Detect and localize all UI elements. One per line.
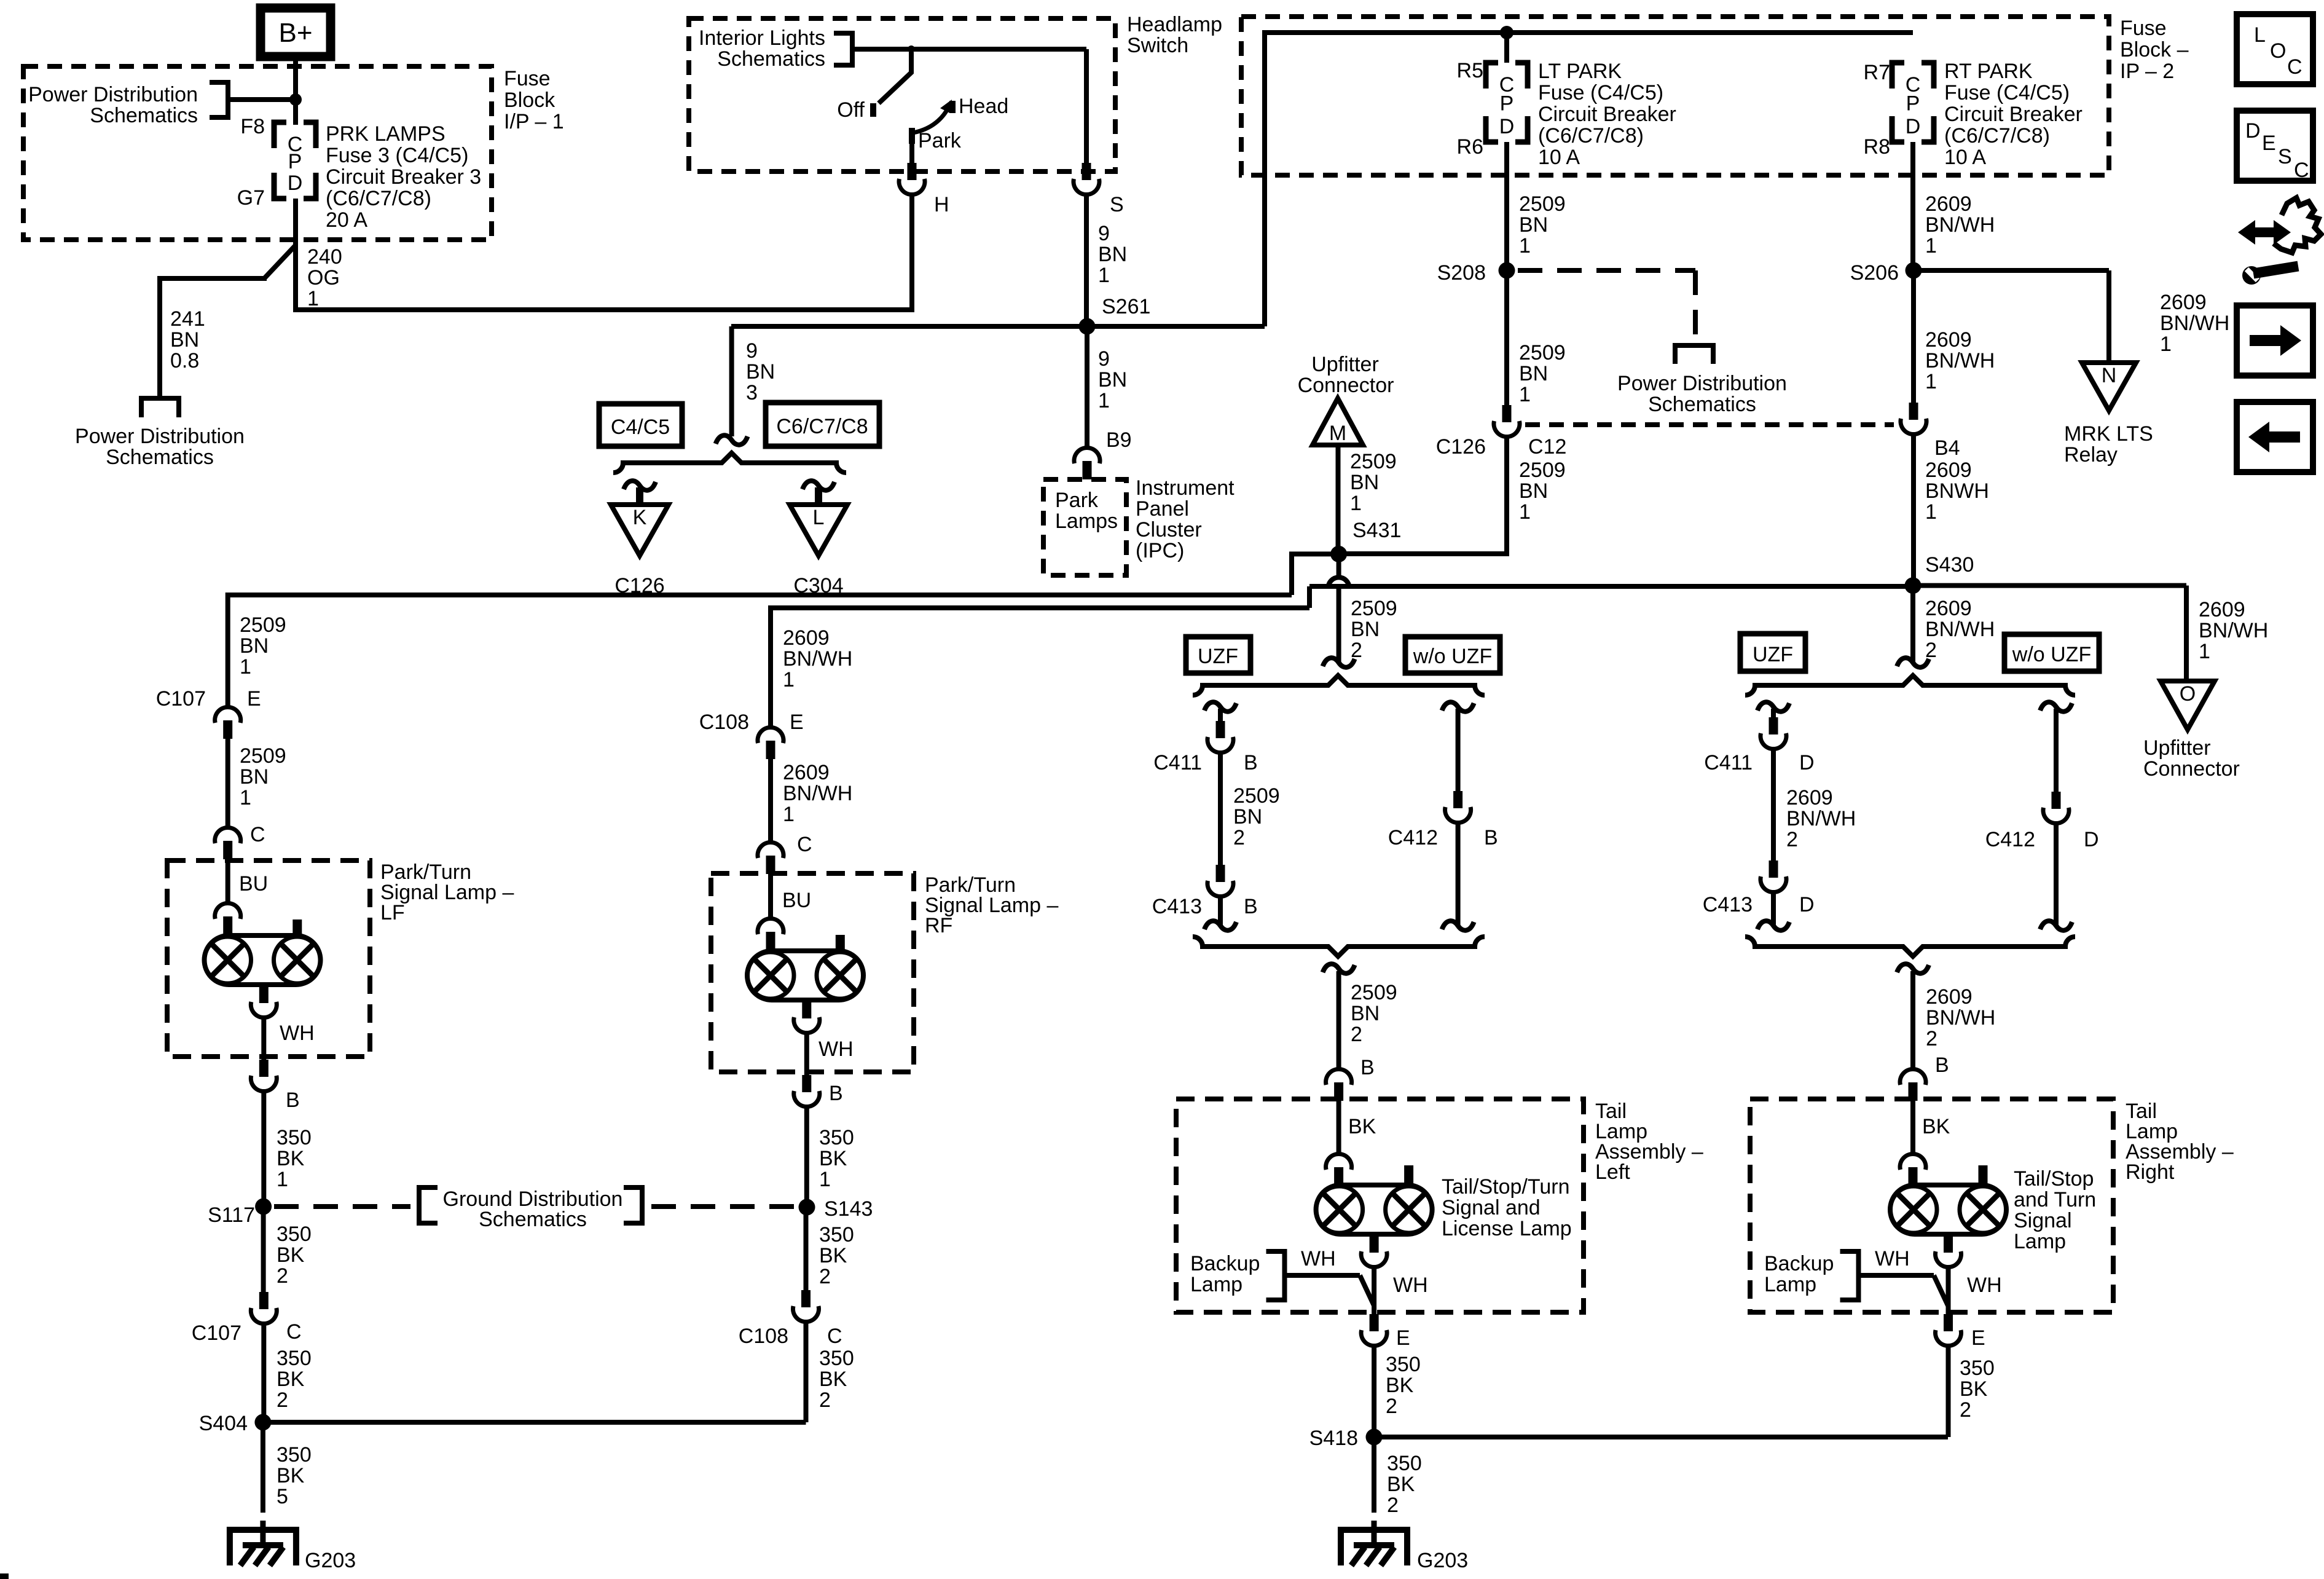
wire tail left to E bbox=[1372, 1267, 1376, 1314]
svg-text:0.8: 0.8 bbox=[170, 349, 199, 372]
svg-text:C: C bbox=[797, 833, 812, 856]
svg-text:BK: BK bbox=[1922, 1115, 1950, 1138]
svg-text:350: 350 bbox=[277, 1443, 312, 1467]
connector WH out (tail left) bbox=[1361, 1251, 1387, 1267]
svg-text:1: 1 bbox=[240, 655, 251, 679]
dashed pass-through line bbox=[1525, 422, 1894, 427]
svg-text:R5: R5 bbox=[1457, 59, 1483, 82]
svg-text:R8: R8 bbox=[1864, 135, 1890, 159]
lamp LF park/turn bulb bbox=[205, 935, 321, 985]
svg-text:2509: 2509 bbox=[1351, 981, 1397, 1004]
wire C413 down (left) bbox=[1218, 897, 1223, 926]
svg-text:BN/WH: BN/WH bbox=[783, 782, 852, 805]
connector B4 bbox=[1909, 403, 1918, 420]
connector E (tail right) bbox=[1944, 1314, 1953, 1331]
connector C411 (right) bbox=[1769, 717, 1778, 734]
svg-text:(IPC): (IPC) bbox=[1136, 539, 1184, 562]
junction above fuse F8 bbox=[289, 93, 302, 106]
wire branch w/o UZF upper (right) bbox=[2054, 709, 2059, 792]
park/turn signal lamp LF dashed box bbox=[167, 860, 370, 1057]
connector BU (RF) bbox=[758, 918, 783, 934]
svg-text:1: 1 bbox=[1925, 234, 1937, 258]
svg-text:BN: BN bbox=[1519, 479, 1548, 503]
wire C108 to S404 corner bbox=[804, 1322, 809, 1422]
svg-text:BN: BN bbox=[746, 360, 775, 384]
svg-text:C: C bbox=[286, 1320, 302, 1344]
connector lamp input left bbox=[1326, 1154, 1352, 1170]
branch UZF right top break bbox=[1757, 702, 1789, 711]
connector S terminal bbox=[1082, 163, 1091, 180]
svg-text:BN: BN bbox=[1098, 368, 1127, 392]
icon LOC box bbox=[2237, 14, 2313, 84]
connector B9 bbox=[1074, 447, 1100, 463]
svg-text:Fuse: Fuse bbox=[504, 67, 551, 90]
svg-text:C6/C7/C8: C6/C7/C8 bbox=[776, 415, 868, 438]
splice S206 bbox=[1906, 262, 1922, 279]
fuse block IP-2 dashed box bbox=[1241, 17, 2109, 175]
svg-text:C126: C126 bbox=[1436, 435, 1486, 459]
svg-text:1: 1 bbox=[1519, 234, 1531, 258]
svg-text:L: L bbox=[2254, 23, 2266, 47]
svg-text:Power Distribution: Power Distribution bbox=[75, 425, 245, 448]
corner artifact mark bbox=[0, 1573, 9, 1579]
svg-text:Signal: Signal bbox=[2014, 1209, 2072, 1232]
icon wrench bbox=[2242, 266, 2261, 285]
svg-text:S: S bbox=[1110, 193, 1124, 216]
svg-text:BN: BN bbox=[1519, 362, 1548, 385]
wire C412 down (right) bbox=[2054, 824, 2059, 926]
svg-text:Fuse 3 (C4/C5): Fuse 3 (C4/C5) bbox=[326, 144, 468, 167]
svg-text:WH: WH bbox=[1875, 1247, 1910, 1270]
svg-text:1: 1 bbox=[1925, 370, 1937, 393]
wire to tail lamp right bbox=[1910, 971, 1915, 1068]
svg-text:350: 350 bbox=[277, 1223, 312, 1246]
svg-text:Relay: Relay bbox=[2064, 443, 2118, 467]
svg-text:20 A: 20 A bbox=[326, 208, 367, 232]
svg-text:I/P – 1: I/P – 1 bbox=[504, 110, 564, 133]
svg-text:B: B bbox=[1484, 826, 1498, 849]
svg-text:350: 350 bbox=[819, 1347, 854, 1370]
switch wand to Off bbox=[879, 52, 911, 103]
svg-text:BN: BN bbox=[1098, 243, 1127, 266]
wire B to S143 bbox=[804, 1107, 809, 1207]
wire BU (LF) bbox=[226, 859, 230, 902]
lamp LF right stub bbox=[292, 919, 302, 937]
svg-text:BN: BN bbox=[240, 765, 269, 789]
bracket ground distribution right bbox=[624, 1187, 642, 1223]
backup lamp wire (left) bbox=[1285, 1273, 1360, 1278]
svg-text:9: 9 bbox=[1098, 347, 1110, 371]
svg-text:Lamp: Lamp bbox=[2014, 1230, 2066, 1253]
svg-text:D: D bbox=[1799, 751, 1815, 774]
svg-text:(C6/C7/C8): (C6/C7/C8) bbox=[1944, 124, 2050, 148]
svg-text:B: B bbox=[1244, 751, 1258, 774]
svg-text:BNWH: BNWH bbox=[1925, 479, 1989, 503]
svg-text:2: 2 bbox=[1786, 828, 1798, 851]
svg-text:2609: 2609 bbox=[1926, 985, 1973, 1009]
wire B to S117 bbox=[261, 1092, 266, 1207]
wire S143 to C108 C bbox=[804, 1207, 809, 1290]
splice S404 bbox=[254, 1414, 271, 1431]
svg-text:D: D bbox=[2245, 119, 2261, 143]
svg-text:Head: Head bbox=[959, 95, 1008, 118]
svg-text:UZF: UZF bbox=[1198, 645, 1238, 668]
svg-text:N: N bbox=[2102, 364, 2117, 387]
wire C108 riser bbox=[768, 605, 773, 726]
svg-text:1: 1 bbox=[1098, 389, 1110, 412]
svg-text:Upfitter: Upfitter bbox=[1311, 353, 1379, 376]
svg-text:B: B bbox=[1935, 1053, 1949, 1077]
svg-text:and Turn: and Turn bbox=[2014, 1188, 2096, 1211]
svg-text:2: 2 bbox=[277, 1264, 288, 1288]
svg-text:S430: S430 bbox=[1925, 553, 1974, 577]
svg-text:G203: G203 bbox=[1417, 1549, 1468, 1572]
svg-text:BN: BN bbox=[240, 634, 269, 658]
svg-text:C: C bbox=[2287, 55, 2302, 79]
splice S430 bbox=[1905, 577, 1922, 594]
splice S418 bbox=[1366, 1429, 1383, 1446]
svg-text:BN: BN bbox=[1351, 1002, 1380, 1025]
svg-text:P: P bbox=[1500, 92, 1514, 116]
brace lower (right group) bbox=[1745, 937, 2075, 956]
backup lamp bracket (right) bbox=[1840, 1251, 1859, 1300]
svg-text:BK: BK bbox=[1960, 1377, 1988, 1401]
break below lower brace (right) bbox=[1897, 964, 1929, 973]
backup lamp wire (right) bbox=[1859, 1273, 1934, 1278]
svg-text:B9: B9 bbox=[1106, 428, 1132, 452]
svg-text:9: 9 bbox=[1098, 222, 1110, 245]
wire IP-2 fuse feed horizontal bbox=[1262, 30, 1913, 35]
wire BK right bbox=[1910, 1100, 1915, 1152]
wire branch UZF left upper bbox=[1218, 709, 1223, 721]
svg-text:C413: C413 bbox=[1152, 895, 1202, 918]
wire C413 down (right) bbox=[1771, 892, 1776, 926]
svg-text:BK: BK bbox=[277, 1147, 305, 1170]
svg-text:1: 1 bbox=[1925, 500, 1937, 524]
icon location double arrow bbox=[2238, 220, 2291, 245]
wire 9 BN 3 horizontal bbox=[731, 324, 1089, 329]
wire 9 BN 3 vertical bbox=[729, 326, 734, 436]
svg-text:Fuse: Fuse bbox=[2120, 17, 2167, 40]
splice S431 bbox=[1330, 546, 1347, 562]
bracket ground distribution left bbox=[419, 1187, 438, 1223]
tail/stop/turn lamp left bbox=[1316, 1185, 1432, 1234]
svg-text:1: 1 bbox=[307, 287, 319, 310]
icon DESC box bbox=[2237, 111, 2313, 181]
svg-text:BK: BK bbox=[819, 1147, 847, 1170]
svg-text:S261: S261 bbox=[1102, 295, 1150, 318]
svg-text:2509: 2509 bbox=[1519, 459, 1566, 482]
fuse F8 PRK LAMPS symbol bbox=[274, 122, 286, 148]
svg-text:2: 2 bbox=[1926, 1027, 1937, 1050]
svg-text:Instrument: Instrument bbox=[1136, 476, 1235, 500]
connector BU (LF) bbox=[215, 903, 241, 919]
ground G203 (right) bbox=[1372, 1521, 1377, 1545]
svg-text:Park: Park bbox=[918, 129, 962, 152]
svg-text:Lamp: Lamp bbox=[1190, 1273, 1242, 1296]
svg-text:240: 240 bbox=[307, 245, 342, 269]
svg-text:350: 350 bbox=[1960, 1357, 1995, 1380]
svg-text:O: O bbox=[2270, 39, 2286, 63]
svg-text:R7: R7 bbox=[1864, 61, 1890, 84]
svg-text:L: L bbox=[813, 506, 825, 529]
wire S261 down to B9 bbox=[1085, 326, 1089, 446]
wire fuse F8 output bbox=[293, 199, 298, 310]
svg-text:2: 2 bbox=[1386, 1395, 1397, 1418]
svg-text:1: 1 bbox=[240, 786, 251, 809]
wire WH to B (LF) bbox=[261, 1017, 266, 1060]
wire S206 to B4 bbox=[1911, 270, 1916, 403]
connector C412 (left) bbox=[1453, 791, 1462, 808]
box C6/C7/C8 bbox=[766, 403, 879, 446]
svg-text:C412: C412 bbox=[1388, 826, 1438, 849]
wire tail right to E bbox=[1946, 1267, 1951, 1314]
wire E to S418 bbox=[1372, 1346, 1376, 1437]
tail lamp assembly right dashed box bbox=[1750, 1099, 2113, 1312]
svg-text:1: 1 bbox=[1350, 492, 1362, 515]
svg-text:B+: B+ bbox=[278, 18, 312, 48]
wire S leg down bbox=[1084, 49, 1089, 163]
svg-text:BN: BN bbox=[170, 328, 199, 352]
wire C107 E to C bbox=[226, 738, 230, 826]
brace lower (left group) bbox=[1193, 937, 1485, 956]
switch pivot node bbox=[908, 45, 915, 53]
svg-text:WH: WH bbox=[280, 1022, 315, 1045]
park/turn signal lamp RF dashed box bbox=[711, 873, 914, 1072]
park contact bbox=[909, 128, 915, 144]
svg-text:Right: Right bbox=[2126, 1160, 2175, 1184]
svg-text:Park: Park bbox=[1055, 489, 1099, 512]
svg-text:BN/WH: BN/WH bbox=[1926, 1006, 1995, 1030]
svg-text:2: 2 bbox=[1351, 1023, 1362, 1046]
tail lamp right right stub bbox=[1979, 1165, 1988, 1185]
lamp RF right stub bbox=[836, 935, 845, 952]
svg-text:2609: 2609 bbox=[1925, 597, 1972, 620]
icon back arrow box bbox=[2237, 402, 2313, 472]
svg-text:350: 350 bbox=[1386, 1353, 1421, 1376]
connector WH out (tail right) bbox=[1936, 1251, 1961, 1267]
svg-text:Backup: Backup bbox=[1190, 1252, 1260, 1275]
svg-text:2609: 2609 bbox=[2160, 291, 2207, 314]
svg-text:10 A: 10 A bbox=[1538, 146, 1580, 169]
svg-text:Switch: Switch bbox=[1127, 34, 1188, 57]
backup lamp bracket (left) bbox=[1266, 1251, 1285, 1300]
wire S431 down with hop bbox=[1337, 554, 1341, 578]
bracket power distribution (S208) bbox=[1675, 345, 1713, 364]
svg-text:Schematics: Schematics bbox=[717, 47, 825, 71]
svg-text:C12: C12 bbox=[1528, 435, 1566, 459]
fuse RT PARK symbol bbox=[1892, 63, 1904, 89]
fuse block I/P-1 dashed box bbox=[23, 66, 492, 240]
svg-text:D: D bbox=[1799, 893, 1815, 916]
svg-text:MRK LTS: MRK LTS bbox=[2064, 422, 2153, 446]
svg-text:BK: BK bbox=[277, 1243, 305, 1267]
off-page connector L bbox=[790, 505, 847, 556]
branch w/o UZF right bottom break bbox=[2040, 921, 2072, 930]
svg-text:S206: S206 bbox=[1850, 261, 1899, 285]
svg-text:B: B bbox=[829, 1082, 843, 1105]
svg-text:9: 9 bbox=[746, 339, 758, 363]
svg-text:UZF: UZF bbox=[1753, 643, 1793, 666]
instrument panel cluster dashed box bbox=[1043, 479, 1126, 575]
wire RT PARK to S206 bbox=[1910, 142, 1915, 270]
wire S to S261 bbox=[1084, 195, 1089, 326]
off-page connector N bbox=[2082, 363, 2136, 411]
branch w/o UZF left top break bbox=[1442, 702, 1474, 711]
svg-text:2509: 2509 bbox=[1233, 784, 1280, 808]
wire S208 to C126/C12 bbox=[1504, 270, 1509, 405]
off-page connector O bbox=[2161, 681, 2215, 730]
wire S418 to right tail bbox=[1374, 1435, 1948, 1439]
svg-text:OG: OG bbox=[307, 266, 340, 289]
wire C107 riser bbox=[226, 593, 230, 706]
brace feed split bbox=[613, 453, 846, 473]
svg-text:Power Distribution: Power Distribution bbox=[28, 83, 198, 106]
svg-text:BN/WH: BN/WH bbox=[783, 647, 852, 671]
head select arc with arrow bbox=[913, 107, 949, 133]
svg-text:C412: C412 bbox=[1985, 828, 2035, 851]
svg-text:License Lamp: License Lamp bbox=[1442, 1217, 1572, 1240]
bracket power distribution (bottom left) bbox=[141, 398, 179, 417]
svg-text:Lamps: Lamps bbox=[1055, 510, 1118, 533]
svg-text:Off: Off bbox=[837, 98, 865, 122]
svg-text:D: D bbox=[2084, 828, 2099, 851]
connector C126/C12 bbox=[1502, 405, 1512, 422]
svg-text:Tail/Stop: Tail/Stop bbox=[2014, 1167, 2094, 1191]
svg-text:BN/WH: BN/WH bbox=[1925, 349, 1995, 372]
svg-text:WH: WH bbox=[1301, 1247, 1336, 1270]
bracket interior lights bbox=[834, 33, 852, 65]
box C4/C5 bbox=[599, 404, 682, 446]
break to brace (9 BN 3) bbox=[716, 435, 748, 444]
svg-text:2509: 2509 bbox=[1350, 450, 1397, 473]
wire to tail lamp left bbox=[1337, 971, 1341, 1068]
connector C108 C bbox=[801, 1290, 811, 1307]
wire S430 down bbox=[1910, 586, 1915, 663]
svg-text:1: 1 bbox=[2160, 333, 2172, 356]
svg-text:B4: B4 bbox=[1934, 436, 1960, 460]
branch w/o UZF left bottom break bbox=[1442, 921, 1474, 930]
svg-text:Lamp: Lamp bbox=[1764, 1273, 1816, 1296]
connector B (RF) bbox=[802, 1075, 811, 1092]
branch w/o UZF right top break bbox=[2040, 702, 2072, 711]
svg-text:WH: WH bbox=[1967, 1274, 2002, 1297]
wire bracket to switch node bbox=[852, 47, 911, 52]
wire BU (RF) bbox=[768, 873, 773, 917]
svg-text:1: 1 bbox=[783, 668, 795, 691]
wire E down (right) bbox=[1946, 1346, 1951, 1437]
dashed link S117 to ground distribution bbox=[274, 1204, 410, 1209]
svg-text:Upfitter: Upfitter bbox=[2143, 736, 2211, 760]
tail lamp assembly left dashed box bbox=[1176, 1099, 1584, 1312]
svg-text:241: 241 bbox=[170, 307, 205, 331]
wire B+ to fuse F8 bbox=[293, 57, 298, 125]
svg-text:B: B bbox=[1360, 1056, 1375, 1079]
svg-text:S: S bbox=[2278, 145, 2292, 168]
svg-text:BN/WH: BN/WH bbox=[2199, 619, 2268, 642]
svg-text:3: 3 bbox=[746, 381, 758, 404]
connector lamp input right bbox=[1900, 1154, 1926, 1170]
svg-text:(C6/C7/C8): (C6/C7/C8) bbox=[326, 187, 431, 210]
break above left brace bbox=[1323, 658, 1355, 667]
svg-text:S117: S117 bbox=[208, 1203, 255, 1227]
svg-text:F8: F8 bbox=[240, 115, 265, 138]
svg-text:BN: BN bbox=[1351, 618, 1380, 641]
svg-text:1: 1 bbox=[277, 1168, 288, 1191]
svg-text:350: 350 bbox=[819, 1126, 854, 1149]
svg-text:2609: 2609 bbox=[1786, 786, 1833, 809]
wire 241 BN vertical bbox=[157, 276, 162, 398]
svg-text:Schematics: Schematics bbox=[1648, 393, 1756, 416]
svg-text:BK: BK bbox=[1387, 1473, 1415, 1496]
box UZF (left) bbox=[1186, 637, 1250, 673]
svg-text:Left: Left bbox=[1595, 1160, 1630, 1184]
svg-text:G7: G7 bbox=[237, 186, 265, 210]
svg-text:2: 2 bbox=[819, 1388, 831, 1412]
svg-text:E: E bbox=[2262, 132, 2276, 155]
connector B (LF) bbox=[259, 1060, 269, 1077]
connector B at tail right bbox=[1900, 1069, 1926, 1085]
off-page connector M bbox=[1313, 398, 1363, 445]
off contact tick bbox=[870, 103, 876, 117]
svg-text:P: P bbox=[288, 150, 302, 173]
splice S261 bbox=[1079, 318, 1096, 335]
svg-text:350: 350 bbox=[1387, 1452, 1422, 1475]
connector C108 E bbox=[758, 727, 783, 743]
off-page connector K bbox=[611, 505, 669, 556]
box w/o UZF (left) bbox=[1405, 637, 1500, 673]
svg-text:Tail/Stop/Turn: Tail/Stop/Turn bbox=[1442, 1175, 1570, 1199]
wire S404 to C108 branch bbox=[263, 1420, 806, 1425]
brace upper (right group) bbox=[1745, 675, 2075, 695]
svg-text:C411: C411 bbox=[1704, 751, 1753, 774]
svg-text:R6: R6 bbox=[1457, 135, 1483, 159]
splice S208 bbox=[1499, 262, 1515, 279]
wire C107 to S404 bbox=[261, 1324, 266, 1422]
svg-text:C413: C413 bbox=[1703, 893, 1753, 916]
svg-text:BK: BK bbox=[277, 1368, 305, 1391]
wire C411 to C413 (right) bbox=[1771, 749, 1776, 860]
svg-text:K: K bbox=[633, 506, 647, 529]
svg-text:BK: BK bbox=[1348, 1115, 1376, 1138]
headlamp switch dashed box bbox=[689, 18, 1115, 171]
svg-text:Block: Block bbox=[504, 89, 555, 112]
wire step to C108 feed bbox=[1307, 586, 1312, 608]
box UZF (right) bbox=[1740, 634, 1805, 671]
svg-text:S431: S431 bbox=[1352, 519, 1401, 542]
svg-text:BU: BU bbox=[239, 872, 268, 896]
svg-text:E: E bbox=[1396, 1326, 1410, 1350]
wire M to S431 bbox=[1336, 445, 1341, 554]
svg-text:BK: BK bbox=[1386, 1374, 1414, 1397]
svg-text:Headlamp: Headlamp bbox=[1127, 13, 1222, 36]
wire B4 to S430 bbox=[1911, 435, 1916, 586]
stub K bbox=[624, 481, 656, 490]
svg-text:1: 1 bbox=[1519, 500, 1531, 524]
svg-text:S208: S208 bbox=[1437, 261, 1486, 285]
svg-text:Signal and: Signal and bbox=[1442, 1196, 1541, 1219]
wire bracket to node F8 bbox=[228, 97, 296, 102]
svg-text:Fuse (C4/C5): Fuse (C4/C5) bbox=[1538, 81, 1663, 104]
wire LT PARK to S208 bbox=[1504, 142, 1509, 270]
icon location outline bbox=[2274, 198, 2321, 253]
svg-text:BN: BN bbox=[1519, 213, 1548, 237]
wire right trunk to S430 bbox=[1309, 584, 1914, 589]
svg-text:1: 1 bbox=[1098, 264, 1110, 287]
svg-text:w/o UZF: w/o UZF bbox=[1413, 645, 1492, 668]
svg-text:C108: C108 bbox=[699, 711, 749, 734]
svg-text:Circuit Breaker: Circuit Breaker bbox=[1944, 103, 2083, 126]
